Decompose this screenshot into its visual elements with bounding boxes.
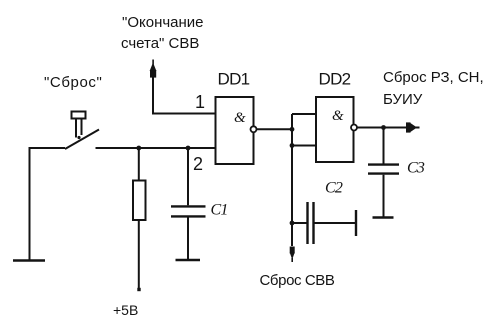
svg-text:"Сброс": "Сброс"	[44, 74, 102, 91]
op-amp gate DD1	[216, 97, 257, 164]
svg-text:С3: С3	[407, 160, 425, 177]
capacitor C1	[171, 148, 206, 259]
capacitor C2	[292, 202, 356, 244]
ground terminator left	[13, 259, 45, 261]
svg-text:БУИУ: БУИУ	[383, 91, 423, 108]
label node "Окончание счета" СВВ	[121, 14, 204, 52]
svg-text:Сброс СВВ: Сброс СВВ	[260, 272, 335, 289]
wire DD1 output to DD2 inputs and down	[257, 114, 317, 246]
svg-text:DD1: DD1	[218, 70, 250, 89]
resistor R1	[133, 148, 146, 288]
junction node at C1	[186, 146, 191, 151]
pushbutton SB "Сброс"	[65, 112, 99, 150]
terminal node +5В	[137, 288, 140, 291]
svg-text:"Окончание: "Окончание	[122, 14, 204, 31]
svg-text:С2: С2	[325, 180, 343, 197]
svg-text:Сброс РЗ, СН,: Сброс РЗ, СН,	[383, 69, 484, 86]
svg-text:&: &	[332, 108, 344, 124]
ground terminator under C1	[176, 259, 201, 261]
capacitor C3	[368, 128, 399, 217]
wire left of switch down to ground	[30, 148, 66, 260]
op-amp gate DD2	[316, 97, 357, 162]
junction node C2 tap	[290, 221, 295, 226]
ground terminator under C3	[373, 216, 394, 218]
junction node DD1 out	[290, 127, 295, 132]
label Сброс РЗ, СН, БУИУ	[383, 69, 484, 108]
svg-text:+5В: +5В	[113, 302, 138, 318]
svg-text:&: &	[234, 110, 246, 126]
node arrow up "Окончание счета" СВВ	[150, 60, 157, 78]
wire DD2 output	[357, 127, 420, 129]
junction node DD2 lower input	[290, 143, 295, 148]
junction node at R1	[136, 146, 141, 151]
svg-text:С1: С1	[211, 202, 228, 219]
svg-text:1: 1	[195, 92, 205, 112]
terminator bar right of C2	[355, 210, 357, 236]
svg-text:2: 2	[193, 154, 203, 174]
svg-text:DD2: DD2	[319, 70, 351, 89]
arrow down Сброс СВВ	[290, 247, 295, 263]
svg-text:счета" СВВ: счета" СВВ	[121, 35, 199, 52]
wire from up-arrow to DD1 pin 1	[153, 75, 216, 114]
wire main from switch to DD1 pin 2	[96, 147, 216, 149]
arrow right Сброс РЗ СН БУИУ	[406, 122, 420, 132]
junction node C3 tap	[381, 125, 386, 130]
